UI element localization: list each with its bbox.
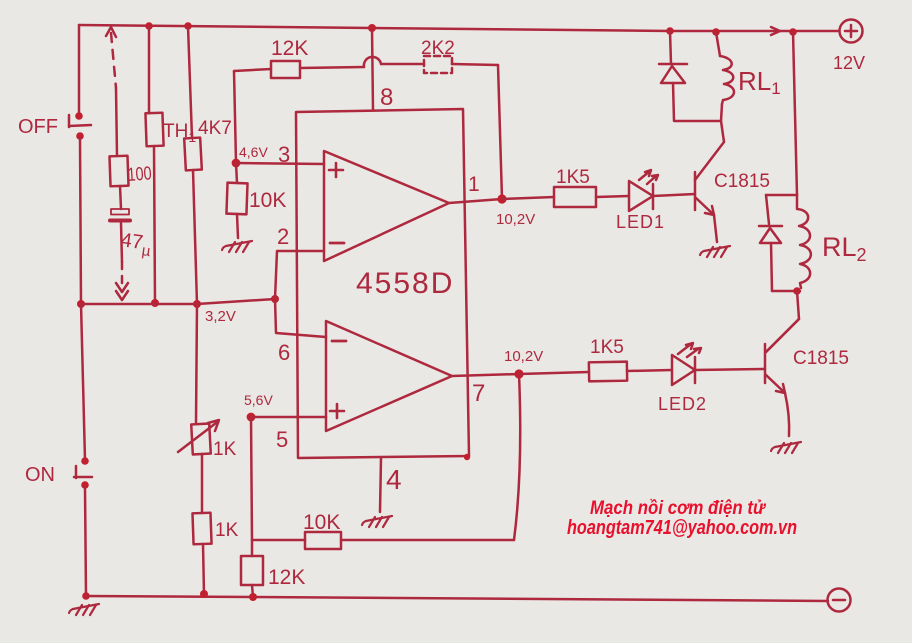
svg-text:5: 5 bbox=[276, 427, 288, 452]
svg-text:10K: 10K bbox=[303, 511, 340, 534]
wire 100 to cap bbox=[120, 186, 121, 209]
terminal +12V bbox=[840, 20, 863, 43]
wire 10K fb left bbox=[252, 539, 305, 542]
node 4,6V bbox=[232, 159, 241, 168]
svg-text:LED2: LED2 bbox=[658, 394, 707, 414]
svg-text:C1815: C1815 bbox=[714, 171, 770, 192]
svg-text:4,6V: 4,6V bbox=[239, 144, 268, 160]
svg-text:4K7: 4K7 bbox=[198, 118, 232, 139]
wire 12K bottom to rail bbox=[252, 585, 253, 597]
svg-text:ON: ON bbox=[25, 464, 55, 486]
svg-text:7: 7 bbox=[472, 380, 485, 407]
ground 10K bbox=[222, 241, 252, 252]
svg-text:2: 2 bbox=[277, 224, 289, 249]
wire pin 2 bbox=[275, 251, 324, 299]
resistor 2K2 dashed bbox=[424, 56, 452, 73]
wire D2 bottom bbox=[771, 243, 772, 291]
resistor 1K5 bottom bbox=[589, 362, 627, 382]
terminal minus bbox=[828, 589, 851, 612]
node 5,6V bbox=[247, 413, 256, 422]
wire 3,2V rail bbox=[81, 299, 275, 304]
wire pin2 node to pin 6 bbox=[275, 299, 326, 337]
node top rail pin8 bbox=[368, 24, 376, 32]
wire RL2 top bar bbox=[766, 194, 797, 197]
resistor 4K7 bbox=[184, 138, 202, 171]
wire Q1 emitter to ground bbox=[714, 215, 717, 242]
node bottom-left bbox=[82, 592, 90, 600]
wire 1K5 to LED1 bbox=[596, 196, 629, 197]
wire 2K2 right bbox=[452, 64, 498, 65]
wire 10K fb right bbox=[341, 539, 514, 542]
svg-text:hoangtam741@yahoo.com.vn: hoangtam741@yahoo.com.vn bbox=[567, 517, 797, 539]
LED1 bbox=[629, 181, 653, 211]
wire Q2 emitter to ground bbox=[785, 393, 789, 436]
wire fb up to 10,2V(2) bbox=[514, 374, 520, 540]
node top rail 4K7 bbox=[184, 22, 192, 30]
op-amp A plus bbox=[329, 163, 343, 177]
wire 10,2V(2) output pin 7 bbox=[452, 374, 519, 376]
switch OFF bbox=[75, 112, 83, 120]
ground pin4 bbox=[362, 516, 392, 527]
svg-text:Mạch nồi cơm điện tử: Mạch nồi cơm điện tử bbox=[590, 498, 766, 519]
svg-text:8: 8 bbox=[380, 84, 393, 111]
svg-text:RL1: RL1 bbox=[738, 66, 781, 98]
svg-text:1K5: 1K5 bbox=[556, 167, 590, 188]
wire OFF to 3,2V rail bbox=[80, 139, 81, 304]
wire left rail to ON bbox=[81, 304, 85, 460]
wire 12K left to 4,6V node bbox=[234, 71, 236, 162]
dashed arrow up (charge path) bbox=[111, 33, 116, 88]
wire D1 top bbox=[670, 31, 671, 64]
svg-text:LED1: LED1 bbox=[616, 212, 665, 232]
wire cap down bbox=[121, 223, 122, 262]
potentiometer 1K bbox=[191, 424, 211, 455]
svg-text:12V: 12V bbox=[833, 53, 865, 73]
wire 12K right bbox=[300, 67, 364, 68]
wire RL2 supply drop bbox=[793, 32, 797, 195]
wire top rail arrow bbox=[771, 27, 780, 35]
wire RL2 to Q2 collector bbox=[766, 291, 799, 352]
svg-text:1K: 1K bbox=[215, 520, 239, 541]
svg-text:1K5: 1K5 bbox=[590, 337, 624, 358]
wire LED2 to Q2 base bbox=[695, 369, 765, 370]
node 3,2V TH1 bbox=[151, 299, 159, 307]
wire pin 5 bbox=[251, 416, 326, 419]
svg-text:6: 6 bbox=[278, 340, 290, 365]
svg-text:10,2V: 10,2V bbox=[496, 211, 535, 228]
wire RL2 bottom bar bbox=[772, 290, 800, 293]
svg-text:10,2V: 10,2V bbox=[504, 348, 543, 365]
wire pin 8 bbox=[372, 28, 373, 110]
node left/3,2V bbox=[77, 300, 85, 308]
ground bottom-left bbox=[69, 604, 99, 615]
wire 5,6V node down to 10K junction bbox=[251, 417, 252, 540]
svg-text:1K: 1K bbox=[213, 439, 237, 460]
wire to resistor 100 bbox=[116, 88, 117, 156]
node 10,2V top bbox=[497, 194, 506, 203]
relay coil RL1 bbox=[720, 56, 734, 104]
resistor 10K bottom bbox=[305, 532, 341, 549]
diode D1 bbox=[659, 63, 687, 66]
svg-text:3: 3 bbox=[278, 142, 290, 167]
IC 4558D box bbox=[296, 109, 469, 458]
svg-text:12K: 12K bbox=[268, 566, 305, 589]
svg-text:4: 4 bbox=[386, 464, 402, 495]
wire TH1 bottom bbox=[154, 146, 155, 303]
transistor Q2 C1815 bbox=[764, 344, 767, 383]
ground Q1 bbox=[700, 246, 730, 257]
wire RL1 top bbox=[716, 32, 720, 56]
diode D2 bbox=[759, 225, 782, 228]
ground Q2 bbox=[771, 442, 801, 453]
resistor 12K top bbox=[271, 61, 300, 78]
svg-text:47µ: 47µ bbox=[119, 229, 154, 260]
thermistor TH1 bbox=[145, 113, 163, 147]
svg-text:RL2: RL2 bbox=[822, 232, 867, 265]
wire D1 bottom bbox=[673, 83, 721, 121]
wire 4K7 top bbox=[188, 26, 192, 138]
svg-text:1: 1 bbox=[468, 173, 480, 196]
node top rail RL2 bbox=[789, 28, 797, 36]
svg-text:C1815: C1815 bbox=[793, 348, 849, 369]
wire D2 top bbox=[766, 195, 769, 224]
node top rail D1 bbox=[666, 27, 674, 35]
node 10,2V bottom bbox=[514, 369, 523, 378]
svg-text:2K2: 2K2 bbox=[421, 38, 455, 59]
resistor 10K bbox=[226, 183, 247, 215]
dashed arrow down to 3,2V rail bbox=[121, 262, 124, 288]
node bottom rail 1K bbox=[200, 590, 208, 598]
LED2 bbox=[672, 355, 695, 385]
wire pin 3 bbox=[236, 163, 324, 164]
wire hop over pin8 bbox=[364, 57, 381, 67]
svg-text:3,2V: 3,2V bbox=[205, 308, 236, 325]
svg-text:4558D: 4558D bbox=[356, 267, 454, 300]
node bottom rail 12K bbox=[249, 593, 257, 601]
wire pin 4 bbox=[380, 458, 381, 512]
node 3,2V 4K7 bbox=[193, 300, 201, 308]
svg-text:12K: 12K bbox=[271, 37, 308, 60]
op-amp B triangle bbox=[326, 321, 452, 431]
node IC corner bbox=[464, 454, 470, 460]
wire op-amp A output bbox=[449, 199, 502, 203]
wire TH1 top bbox=[148, 26, 151, 113]
wire node to 1K5 bottom bbox=[519, 372, 589, 374]
wire down to 10,2V node bbox=[498, 65, 502, 199]
svg-text:10K: 10K bbox=[249, 189, 286, 212]
capacitor 47u bbox=[111, 209, 129, 215]
svg-text:5,6V: 5,6V bbox=[244, 392, 273, 408]
wire 10K top bbox=[236, 163, 237, 183]
node top rail RL1 bbox=[712, 28, 720, 36]
resistor 100 bbox=[109, 156, 128, 187]
node top rail TH1 bbox=[145, 22, 153, 30]
wire LED1 to Q1 base bbox=[653, 194, 695, 196]
wire to 12K bottom bbox=[251, 540, 254, 556]
op-amp B plus bbox=[330, 404, 344, 418]
node RL2 bottom bbox=[793, 287, 801, 295]
wire bottom rail bbox=[86, 596, 828, 601]
resistor 1K bbox=[192, 513, 211, 545]
wire pot 1K top bbox=[196, 304, 197, 424]
wire 1K5 to LED2 bbox=[627, 370, 672, 371]
wire 12K left horizontal bbox=[234, 69, 271, 71]
wire ON to bottom rail bbox=[85, 488, 86, 596]
wire 10K bottom bbox=[237, 214, 238, 238]
node 3,2V pin2/6 bbox=[271, 295, 279, 303]
wire hop to 2K2 bbox=[381, 63, 424, 66]
wire top +12V rail bbox=[79, 25, 839, 31]
resistor 1K5 top bbox=[554, 187, 596, 207]
op-amp B minus bbox=[332, 340, 346, 343]
wire RL1 bottom to Q1 collector bbox=[721, 104, 724, 142]
svg-text:100: 100 bbox=[127, 163, 152, 186]
svg-text:OFF: OFF bbox=[18, 116, 58, 138]
wire pot to 1K bbox=[201, 454, 204, 513]
wire node to 1K5 bbox=[502, 197, 554, 199]
op-amp A triangle bbox=[324, 151, 449, 261]
op-amp A minus bbox=[330, 242, 344, 245]
wire left rail upper (top corner to OFF) bbox=[78, 25, 81, 115]
relay coil RL2 bbox=[797, 195, 811, 288]
transistor Q1 C1815 bbox=[694, 172, 697, 210]
switch ON bbox=[81, 457, 89, 465]
wire 1K to bottom rail bbox=[203, 544, 204, 594]
wire 4K7 bottom bbox=[193, 170, 197, 304]
resistor 12K bottom bbox=[241, 556, 263, 585]
